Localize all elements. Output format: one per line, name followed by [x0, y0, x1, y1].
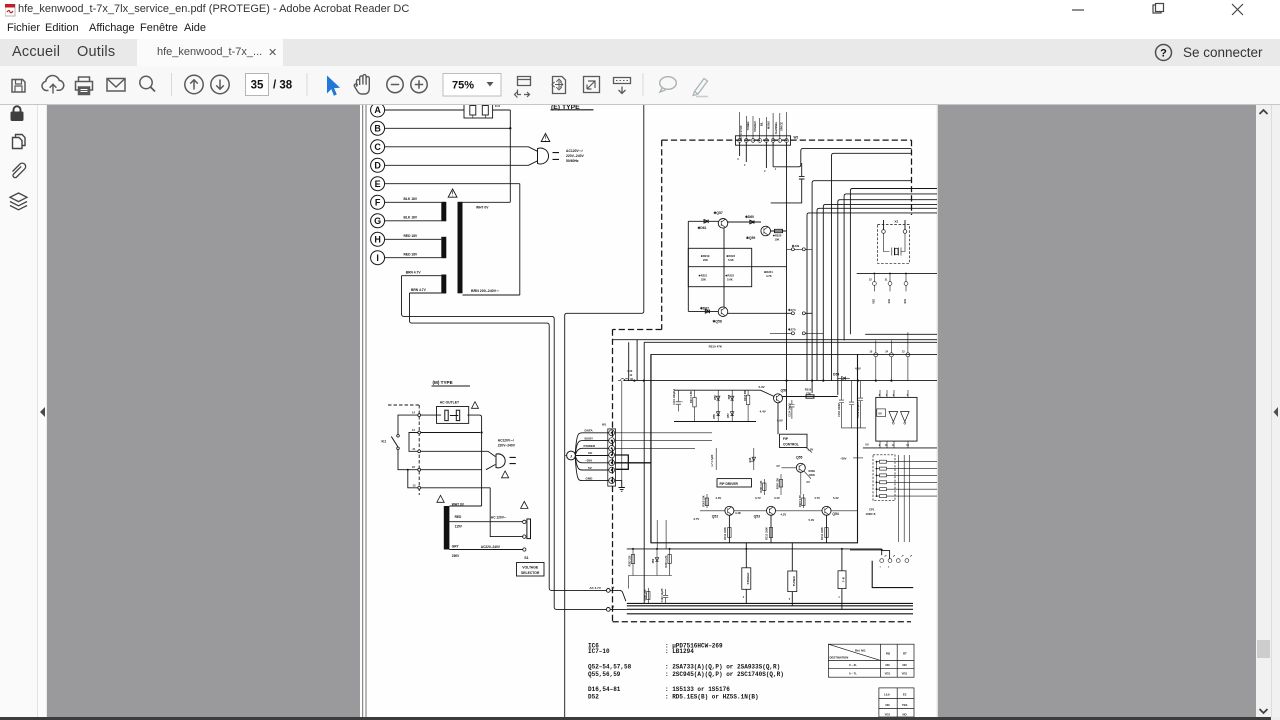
svg-text:RED 18V: RED 18V: [404, 252, 419, 256]
svg-text:NO: NO: [903, 713, 908, 717]
svg-text:L0,9: L0,9: [884, 693, 890, 697]
svg-text:GRY: GRY: [452, 545, 460, 549]
svg-text:RED: RED: [455, 515, 462, 519]
svg-text:100K: 100K: [809, 473, 815, 477]
svg-text:14: 14: [412, 411, 415, 415]
svg-text:100K×6: 100K×6: [866, 512, 876, 516]
svg-text:R214 100K: R214 100K: [821, 527, 824, 540]
svg-text:13: 13: [413, 483, 416, 487]
svg-text:AC 4.7V: AC 4.7V: [590, 586, 601, 590]
svg-text:BLK 18V: BLK 18V: [404, 216, 418, 220]
svg-text:1: 1: [838, 596, 840, 599]
svg-text:21: 21: [413, 447, 416, 451]
svg-text:: RD5.1ES(B) or HZ5S.1N(B): : RD5.1ES(B) or HZ5S.1N(B): [665, 694, 759, 701]
svg-text:B: B: [374, 124, 381, 134]
svg-text:S1: S1: [524, 556, 528, 560]
svg-text:R217 6.8K: R217 6.8K: [690, 391, 693, 403]
svg-text:4: 4: [744, 164, 746, 167]
svg-text:✱R222: ✱R222: [725, 274, 734, 278]
svg-text:4.7K: 4.7K: [766, 274, 772, 278]
svg-text:NO: NO: [886, 663, 891, 667]
svg-text:19: 19: [611, 586, 614, 590]
svg-text:GND: GND: [586, 476, 594, 480]
svg-text:A: A: [374, 105, 381, 115]
svg-text:CP1: CP1: [869, 507, 875, 511]
svg-text:✱R225: ✱R225: [773, 234, 782, 238]
svg-text:20: 20: [611, 605, 614, 609]
svg-text:FIP DRIVER: FIP DRIVER: [720, 482, 739, 486]
svg-text:0V: 0V: [879, 412, 883, 416]
svg-text:BLK 18V: BLK 18V: [404, 197, 418, 201]
svg-text:I: I: [376, 253, 379, 263]
svg-text:RED 18V: RED 18V: [404, 234, 419, 238]
svg-text:Q52: Q52: [712, 514, 719, 518]
svg-text:✱Q58: ✱Q58: [713, 319, 722, 323]
svg-text:Q54: Q54: [832, 512, 839, 516]
svg-text:R213 100K: R213 100K: [766, 527, 769, 540]
svg-text:12: 12: [906, 444, 909, 447]
svg-text:R208 12K: R208 12K: [776, 478, 779, 489]
svg-text:R212 100K: R212 100K: [724, 527, 727, 540]
svg-text:AC220–240V: AC220–240V: [481, 545, 501, 549]
svg-text:Q52–54,57,58: Q52–54,57,58: [588, 664, 632, 671]
svg-text:0 – 2L: 0 – 2L: [849, 663, 857, 667]
svg-text:SELECTOR: SELECTOR: [521, 571, 540, 575]
svg-text:DATA: DATA: [585, 429, 594, 433]
svg-text:250V: 250V: [452, 554, 460, 558]
svg-text:–35V: –35V: [585, 459, 593, 463]
svg-text:R215 47K: R215 47K: [709, 345, 723, 349]
svg-text:3.7V: 3.7V: [694, 517, 700, 521]
svg-text:L7 4.7µ50: L7 4.7µ50: [710, 454, 714, 466]
svg-text:SPACE: SPACE: [780, 122, 784, 131]
svg-text:50/60Hz: 50/60Hz: [566, 159, 579, 163]
svg-text:D16,54–81: D16,54–81: [588, 686, 621, 693]
svg-text:22K: 22K: [703, 258, 708, 262]
svg-text:J: J: [570, 454, 572, 458]
svg-text:4.4K: 4.4K: [735, 511, 741, 515]
svg-text:✱R219: ✱R219: [701, 254, 710, 258]
svg-text:YES: YES: [902, 672, 908, 676]
svg-text:31: 31: [885, 279, 888, 282]
svg-text:10: 10: [885, 444, 888, 447]
svg-text:✱J74: ✱J74: [788, 308, 796, 312]
svg-text:Q56: Q56: [781, 389, 788, 393]
svg-text:E: E: [375, 179, 381, 189]
svg-text:RB: RB: [886, 652, 890, 656]
svg-text:5.3V: 5.3V: [759, 385, 765, 389]
svg-text:(M) TYPE: (M) TYPE: [433, 380, 453, 385]
svg-text:5.6K: 5.6K: [727, 278, 733, 282]
svg-text:–36V: –36V: [840, 456, 847, 460]
svg-text:4.4V: 4.4V: [774, 496, 780, 500]
svg-text:5.6K: 5.6K: [728, 258, 734, 262]
svg-text:: 2SA733(A)(Q,P) or 2SA933S(Q,: : 2SA733(A)(Q,P) or 2SA933S(Q,R): [665, 664, 780, 671]
svg-text:35: 35: [251, 80, 264, 92]
svg-text:R209: R209: [809, 469, 816, 473]
svg-text:D52: D52: [588, 694, 599, 701]
svg-text:12: 12: [630, 374, 633, 377]
svg-text:CHANNEL: CHANNEL: [774, 121, 778, 134]
svg-text:FIP: FIP: [783, 437, 789, 441]
svg-text:2: 2: [888, 567, 890, 569]
svg-text:10K: 10K: [775, 238, 780, 242]
svg-text:✱D62: ✱D62: [700, 306, 709, 310]
svg-text:DESTINATION: DESTINATION: [830, 656, 849, 660]
svg-text:C101 100µ6.3: C101 100µ6.3: [673, 389, 676, 405]
svg-text:AC OUTLET: AC OUTLET: [440, 401, 460, 405]
svg-text:✱Q57: ✱Q57: [714, 211, 723, 215]
svg-text:24: 24: [885, 351, 888, 354]
svg-text:1: 1: [775, 168, 777, 171]
svg-text:D54: D54: [833, 373, 839, 377]
svg-text:RT: RT: [903, 652, 907, 656]
svg-text:R203 4.7K: R203 4.7K: [665, 555, 668, 567]
svg-text:0 – 7L: 0 – 7L: [849, 672, 857, 676]
svg-text:D56: D56: [714, 395, 717, 400]
svg-text:CE: CE: [588, 451, 592, 455]
svg-text:C153 1000P: C153 1000P: [838, 403, 841, 417]
svg-text:MONO: MONO: [766, 121, 770, 129]
svg-text:75%: 75%: [452, 80, 474, 92]
svg-text:11: 11: [892, 444, 895, 447]
svg-text:4.7V: 4.7V: [814, 496, 820, 500]
svg-text:R210: R210: [805, 388, 812, 392]
svg-text:D57: D57: [727, 413, 730, 418]
svg-text:22K: 22K: [701, 278, 706, 282]
svg-text:TUNED: TUNED: [792, 576, 796, 586]
svg-text:10: 10: [870, 351, 873, 354]
svg-text:✱J49: ✱J49: [792, 244, 800, 248]
svg-text:VOLTAGE: VOLTAGE: [522, 565, 539, 569]
svg-text:5.3V: 5.3V: [809, 518, 815, 522]
svg-text:BUSY: BUSY: [585, 436, 595, 440]
svg-text:Q53: Q53: [754, 514, 761, 518]
svg-text:13: 13: [902, 351, 905, 354]
svg-text:NO: NO: [903, 663, 908, 667]
svg-text:5V: 5V: [588, 466, 593, 470]
svg-text:R21: R21: [904, 298, 907, 303]
svg-text:0V: 0V: [777, 464, 780, 468]
svg-text:X2: X2: [895, 220, 899, 224]
svg-text:32: 32: [869, 279, 872, 282]
svg-text:F: F: [375, 198, 381, 208]
svg-text:Q55: Q55: [796, 456, 803, 460]
svg-text:Q55,56,59: Q55,56,59: [588, 671, 621, 678]
svg-text:2: 2: [743, 596, 745, 599]
svg-text:D55: D55: [713, 414, 716, 419]
svg-text:5.3V: 5.3V: [833, 496, 839, 500]
svg-text:0V: 0V: [866, 443, 869, 447]
svg-text:R11: R11: [888, 298, 891, 303]
svg-text:FU1: FU1: [495, 105, 500, 108]
svg-text:/ 38: / 38: [273, 80, 293, 92]
svg-text:0V: 0V: [807, 480, 810, 484]
svg-text:POWER: POWER: [584, 444, 596, 448]
svg-text:2: 2: [764, 170, 766, 173]
svg-text:9: 9: [879, 444, 881, 447]
svg-text:H: H: [374, 235, 381, 245]
svg-text:STEREO: STEREO: [753, 121, 757, 132]
svg-text:3.7V: 3.7V: [755, 496, 761, 500]
svg-text:G: G: [374, 216, 381, 226]
svg-text:4.2V: 4.2V: [781, 513, 787, 517]
svg-text:YES: YES: [885, 713, 891, 717]
svg-text:D52: D52: [652, 558, 655, 563]
svg-text:✱R223: ✱R223: [726, 254, 735, 258]
svg-text:: 1S5133 or 1S5176: : 1S5133 or 1S5176: [665, 686, 730, 693]
svg-text:BRN 4.7V: BRN 4.7V: [411, 288, 427, 292]
svg-text:220V–240V: 220V–240V: [566, 154, 584, 158]
svg-text:✱D61: ✱D61: [698, 226, 707, 230]
svg-text:?: ?: [1160, 48, 1167, 60]
svg-text:4.3V: 4.3V: [716, 496, 722, 500]
svg-text:W1: W1: [602, 423, 607, 427]
svg-text:12: 12: [412, 428, 415, 432]
svg-text:K1: K1: [382, 440, 387, 444]
svg-text:YES: YES: [902, 703, 908, 707]
svg-text:220V–240V: 220V–240V: [498, 443, 516, 447]
svg-text:1: 1: [880, 567, 882, 569]
svg-text:STEREO: STEREO: [746, 572, 750, 585]
svg-text:3: 3: [737, 158, 739, 161]
svg-text:BRN 4.7V: BRN 4.7V: [406, 271, 422, 275]
svg-text:AC120V∼/: AC120V∼/: [566, 149, 583, 153]
svg-text:: LB1294: : LB1294: [665, 648, 694, 655]
svg-text:R202 220: R202 220: [629, 555, 632, 566]
svg-text:YES: YES: [885, 672, 891, 676]
svg-text:VSS: VSS: [873, 299, 876, 304]
svg-text:T–R: T–R: [841, 577, 845, 582]
svg-text:IC7–10: IC7–10: [588, 648, 610, 655]
svg-text:22: 22: [412, 465, 415, 469]
svg-text:BIL: BIL: [760, 122, 764, 127]
svg-text:E2: E2: [903, 693, 907, 697]
svg-text:✱Q59: ✱Q59: [746, 236, 755, 240]
svg-text:C: C: [374, 142, 381, 152]
svg-text:BRN 200–240V∼: BRN 200–240V∼: [471, 289, 499, 293]
svg-text:5: 5: [789, 598, 791, 601]
svg-text:D16: D16: [748, 457, 752, 462]
svg-text:WHT 0V: WHT 0V: [476, 205, 489, 209]
svg-text:WHT 0V: WHT 0V: [452, 503, 465, 507]
svg-text:✱J75: ✱J75: [788, 327, 796, 331]
svg-text:AC120V∼/: AC120V∼/: [498, 438, 514, 442]
svg-text:✱R221: ✱R221: [699, 274, 708, 278]
svg-text:✱D60: ✱D60: [745, 215, 754, 219]
svg-text:AC 120V∼: AC 120V∼: [491, 515, 507, 519]
svg-text:Ref. NO.: Ref. NO.: [855, 649, 866, 653]
svg-text:W2: W2: [794, 136, 799, 140]
svg-text:TUNED: TUNED: [746, 121, 750, 130]
svg-text:D: D: [374, 161, 381, 171]
svg-text:+: +: [681, 400, 683, 403]
svg-text:4.4V: 4.4V: [760, 409, 766, 413]
svg-text:CONTROL: CONTROL: [783, 443, 799, 447]
svg-text:✱R224: ✱R224: [764, 270, 773, 274]
svg-text:: 2SC945(A)(Q,P) or 2SC1740S(Q: : 2SC945(A)(Q,P) or 2SC1740S(Q,R): [665, 671, 784, 678]
svg-text:115V: 115V: [455, 525, 463, 529]
svg-text:NO: NO: [886, 703, 891, 707]
